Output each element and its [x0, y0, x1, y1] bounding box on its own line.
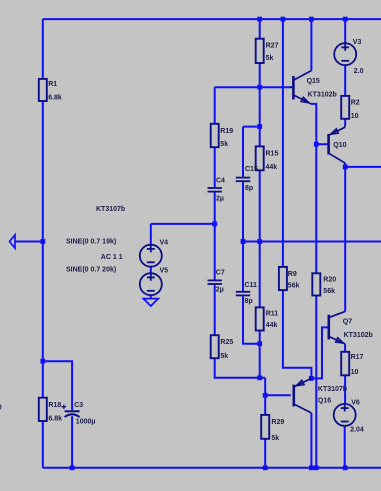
svg-text:2.0: 2.0: [354, 68, 364, 75]
resistor R9 56k: [279, 267, 300, 290]
resistor R11 44k: [256, 307, 279, 330]
transistor Q7 NPN KT3102b: [329, 311, 373, 344]
wire C15 branch top: [243, 126, 260, 128]
svg-text:44k: 44k: [266, 164, 278, 171]
capacitor C3 1000µ polarized: [62, 402, 96, 426]
wire R15 to R11: [259, 170, 261, 307]
svg-text:V4: V4: [160, 239, 169, 246]
svg-text:R11: R11: [266, 311, 279, 318]
wire C4 to C7 through node: [214, 193, 216, 280]
junction bottom rail: [309, 465, 314, 470]
svg-text:2µ: 2µ: [216, 287, 224, 294]
junction top rail: [343, 17, 348, 22]
svg-text:0: 0: [0, 405, 2, 412]
port IN arrow: [10, 235, 16, 248]
junction input port: [40, 239, 45, 244]
svg-text:C3: C3: [74, 402, 83, 409]
svg-text:44k: 44k: [266, 322, 278, 329]
wire bus to C11: [242, 242, 244, 291]
wire node to R29: [264, 378, 266, 415]
svg-text:5k: 5k: [220, 353, 228, 360]
wire C3 bottom lead: [71, 416, 73, 468]
svg-text:KT3102b: KT3102b: [308, 91, 337, 98]
wire bottom rail: [43, 467, 381, 469]
svg-text:R15: R15: [266, 151, 279, 158]
svg-text:KT3107b: KT3107b: [96, 206, 125, 213]
svg-text:V3: V3: [353, 39, 362, 46]
svg-text:2.04: 2.04: [350, 426, 364, 433]
svg-text:5k: 5k: [220, 141, 228, 148]
svg-text:V6: V6: [351, 400, 360, 407]
svg-text:R29: R29: [271, 419, 284, 426]
wire Q10 collector to Q7 collector: [344, 163, 346, 312]
svg-text:6.8k: 6.8k: [48, 415, 62, 422]
wire V3 to R2: [344, 65, 346, 96]
svg-text:2µ: 2µ: [216, 196, 224, 203]
junction bottom rail: [314, 465, 319, 470]
capacitor C7 2µ: [208, 270, 225, 294]
wire R27 to R15: [259, 63, 261, 146]
voltage source V6 2.04: [334, 400, 364, 434]
wire C15 to bus: [242, 182, 244, 241]
resistor R29 5k: [261, 415, 284, 442]
wire Q16 base lead: [265, 394, 291, 396]
svg-text:R9: R9: [288, 271, 297, 278]
resistor R27 5k: [256, 39, 279, 63]
junction bottom rail: [343, 465, 348, 470]
voltage source V5: [140, 268, 168, 296]
svg-text:KT3107b: KT3107b: [318, 386, 347, 393]
wire R27 top lead: [259, 19, 261, 39]
wire Q7 base to Q16 emitter node: [311, 327, 328, 378]
transistor Q10 PNP: [329, 125, 347, 163]
junction Q15 base / R27: [257, 85, 262, 90]
wire R20 to bottom rail: [315, 296, 317, 468]
svg-text:KT3102b: KT3102b: [344, 332, 373, 339]
wire R19 to C4: [214, 147, 216, 187]
svg-text:R1: R1: [48, 81, 57, 88]
wire R9 top lead: [282, 19, 284, 267]
svg-text:5k: 5k: [266, 55, 274, 62]
svg-text:10: 10: [351, 113, 359, 120]
svg-text:V5: V5: [160, 268, 169, 275]
wire C7 to R25: [214, 285, 216, 335]
wire Q16 collector lead: [310, 413, 312, 468]
resistor R20 56k: [312, 273, 336, 295]
wire V3 top lead: [344, 19, 346, 43]
resistor R25 5k: [211, 335, 234, 360]
resistor R18 6.8k: [39, 398, 62, 423]
wire Q10 base lead: [316, 143, 328, 145]
resistor R15 44k: [256, 146, 279, 170]
wire R9 to Q16 emitter node: [283, 290, 312, 378]
svg-text:R2: R2: [351, 100, 360, 107]
junction R11 bottom: [257, 375, 262, 380]
wire Q15 base rail: [215, 86, 291, 88]
wire mid bus: [243, 241, 381, 243]
capacitor C11 8p: [236, 282, 257, 305]
svg-text:10: 10: [351, 369, 359, 376]
resistor R2 10: [341, 96, 360, 120]
wire C11 to R11 node: [243, 296, 260, 343]
wire V5 to ground: [150, 295, 152, 298]
voltage source V3 2.0: [334, 39, 363, 75]
junction bus / C15-C11: [241, 239, 246, 244]
svg-text:SINE(0 0.7 19k): SINE(0 0.7 19k): [66, 238, 116, 245]
junction top rail: [281, 17, 286, 22]
wire R29 bottom lead: [264, 439, 266, 468]
svg-text:Q15: Q15: [307, 78, 320, 85]
wire Q15 emitter to R20: [311, 104, 316, 273]
junction R11 / C11: [257, 341, 262, 346]
wire R25 bottom to node: [215, 358, 266, 378]
svg-text:C15: C15: [245, 166, 258, 173]
wire V4 to node C: [151, 223, 215, 225]
svg-text:8p: 8p: [245, 298, 253, 305]
wire left rail upper: [42, 19, 44, 79]
wire V4 top lead: [150, 224, 152, 245]
wire R2 bottom lead: [344, 119, 346, 125]
wire top rail: [43, 18, 381, 20]
svg-text:56k: 56k: [288, 282, 300, 289]
svg-text:56k: 56k: [323, 288, 335, 295]
svg-text:R18: R18: [48, 402, 61, 409]
svg-text:R27: R27: [266, 43, 279, 50]
wire R17 to V6: [344, 375, 346, 404]
resistor R17 10: [341, 352, 363, 376]
junction top rail: [309, 17, 314, 22]
wire left rail middle: [42, 101, 44, 398]
svg-text:Q16: Q16: [318, 398, 331, 405]
junction Q16 emitter node: [309, 376, 314, 381]
wire R19 top lead: [214, 87, 216, 124]
svg-text:R25: R25: [220, 339, 233, 346]
wire Q15 collector lead: [310, 19, 312, 71]
wire branch to C3: [43, 361, 72, 410]
svg-text:6.8k: 6.8k: [48, 94, 62, 101]
svg-text:R19: R19: [220, 128, 233, 135]
ground: [143, 299, 158, 306]
transistor Q16 PNP KT3107b: [294, 378, 347, 413]
svg-text:C7: C7: [216, 270, 225, 277]
svg-text:Q10: Q10: [333, 142, 346, 149]
junction Q10 collector: [343, 165, 348, 170]
transistor Q15 NPN KT3102b: [290, 71, 337, 104]
junction C4 / V4: [212, 222, 217, 227]
wire Q7 emitter to R17: [344, 344, 346, 352]
svg-text:5k: 5k: [271, 435, 279, 442]
junction bottom rail: [263, 465, 268, 470]
resistor R1 6.8k: [39, 79, 62, 102]
capacitor C15 8p: [236, 166, 258, 192]
wire input port to left rail: [15, 241, 43, 243]
junction bottom rail: [70, 465, 75, 470]
wire Q10 collector out: [345, 166, 381, 168]
wire left rail lower: [42, 421, 44, 468]
svg-text:C4: C4: [216, 177, 225, 184]
svg-text:SINE(0 0.7 20k): SINE(0 0.7 20k): [66, 267, 116, 274]
svg-text:Q7: Q7: [343, 318, 352, 325]
junction top rail: [257, 17, 262, 22]
junction R15 top / C15: [257, 124, 262, 129]
wire V6 bottom lead: [344, 426, 346, 468]
capacitor C4 2µ: [208, 177, 226, 202]
svg-text:8p: 8p: [245, 185, 253, 192]
svg-text:AC 1 1: AC 1 1: [101, 254, 123, 261]
svg-text:C11: C11: [245, 282, 258, 289]
wire V4-V5 link: [150, 267, 152, 273]
junction C3 branch: [40, 359, 45, 364]
junction Q16 base / R29: [263, 393, 268, 398]
wire C15 top lead: [242, 127, 244, 177]
junction Q10 base: [314, 142, 319, 147]
resistor R19 5k: [211, 124, 234, 148]
junction bus / R15-R11: [257, 239, 262, 244]
wire R11 bottom lead: [259, 331, 261, 378]
svg-text:R17: R17: [351, 354, 364, 361]
svg-text:1000µ: 1000µ: [76, 419, 96, 426]
svg-text:R20: R20: [323, 276, 336, 283]
voltage source V4: [140, 239, 168, 266]
